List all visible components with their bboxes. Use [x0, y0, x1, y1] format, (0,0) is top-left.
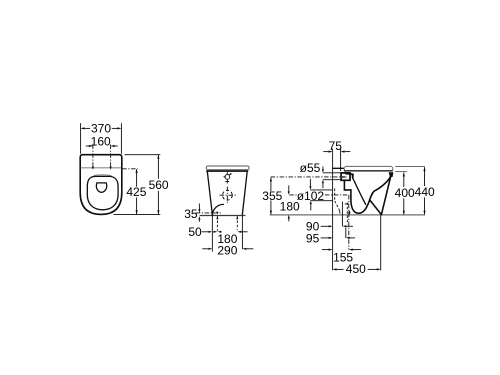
- ext line left: [211, 216, 213, 252]
- large crosshair circle dashed: [222, 190, 232, 200]
- svg-text:160: 160: [91, 134, 111, 148]
- hidden pipe dashed diagonal: [335, 201, 340, 211]
- dim 35 dashdot: [196, 212, 223, 214]
- seat slab: [344, 166, 393, 171]
- connector vertical 90-95: [345, 228, 347, 238]
- dim 400 up arrow: [403, 172, 405, 176]
- inner water spot: [96, 183, 106, 192]
- dim 400 line upper: [403, 173, 405, 187]
- bolt line right dashed: [236, 216, 238, 230]
- dim 425 ext dashdot: [122, 168, 138, 170]
- dim 560 down arrow: [157, 210, 159, 214]
- svg-text:50: 50: [188, 225, 202, 239]
- svg-text:425: 425: [126, 185, 146, 199]
- bolt line left arrowhead: [216, 216, 218, 219]
- large crosshair vertical: [226, 187, 228, 204]
- svg-text:450: 450: [346, 262, 366, 276]
- small crosshair NE head: [230, 173, 232, 175]
- dim 35 upper arrow: [198, 204, 200, 210]
- dim 560 line upper: [157, 155, 159, 179]
- o102 bottom line: [310, 200, 332, 202]
- bowl top grey arc: [94, 174, 112, 177]
- hole centerline left arrowhead: [92, 167, 94, 170]
- foot V right: [381, 176, 391, 215]
- body left side: [207, 171, 212, 215]
- dim 440 up arrow: [423, 167, 425, 171]
- seat lid edge: [206, 166, 249, 170]
- svg-text:400: 400: [395, 186, 415, 200]
- bolt line right arrowhead: [236, 216, 238, 219]
- dim 425 line lower: [136, 197, 138, 214]
- dim 160 right arrow: [111, 145, 115, 147]
- drain centerline dashdot horizontal: [289, 194, 349, 196]
- svg-text:290: 290: [217, 243, 237, 257]
- dim 400 down arrow: [403, 211, 405, 215]
- dim 50 double head at bolt line: [213, 231, 217, 233]
- bolt line left dashed: [216, 216, 218, 231]
- floor line rear: [200, 215, 246, 217]
- svg-text:180: 180: [280, 200, 300, 214]
- dim 440 line upper: [424, 167, 426, 186]
- hole centerline right: [110, 145, 112, 169]
- dim 290 left arrow: [202, 248, 208, 250]
- dim 425 up arrow: [136, 169, 138, 173]
- hinge elbow down: [352, 174, 354, 179]
- dim 355 line lower: [270, 201, 272, 215]
- svg-text:440: 440: [415, 185, 435, 199]
- dim 370 ext line left: [80, 123, 82, 154]
- dim text o102: [298, 191, 323, 200]
- rim tip black: [389, 172, 394, 177]
- svg-text:75: 75: [329, 139, 343, 153]
- hole centerline right arrowhead: [110, 167, 112, 170]
- wall line: [332, 149, 334, 271]
- dim 450 right arrow: [377, 268, 381, 270]
- small crosshair NE tick: [229, 174, 231, 176]
- large crosshair horizontal: [220, 194, 236, 196]
- dim 155 arrows: [322, 249, 329, 251]
- drain centerline dashdot vertical: [348, 195, 350, 250]
- bowl outline: [87, 176, 118, 209]
- dim 180 down arrow: [288, 185, 290, 191]
- dim 425 line upper: [136, 169, 138, 186]
- hole centerline left: [92, 145, 94, 169]
- o102 top line: [310, 189, 332, 191]
- ext line right: [241, 216, 243, 249]
- hidden dashed vertical near trap: [346, 203, 348, 225]
- small crosshair circle: [225, 175, 230, 180]
- svg-text:ø55: ø55: [300, 161, 321, 175]
- dim 560 ext bottom: [114, 213, 161, 215]
- o55 pipe top line: [323, 172, 341, 174]
- dim 440 down arrow: [423, 211, 425, 215]
- dim 370 right arrow: [117, 127, 121, 129]
- small up arrow at trap: [348, 211, 350, 215]
- o55 up arrow: [322, 180, 324, 184]
- dim 560 up arrow: [157, 155, 159, 159]
- foot V left: [370, 200, 382, 215]
- dim 355 down arrow: [270, 211, 272, 215]
- bolt hole solid vertical: [341, 202, 343, 227]
- bowl back-left profile: [344, 180, 369, 213]
- dim 75 right ext: [340, 149, 342, 171]
- lid back line: [333, 167, 345, 169]
- svg-text:35: 35: [184, 207, 198, 221]
- hidden pipe dashed vertical upper: [334, 189, 336, 201]
- o55 down arrow: [322, 167, 324, 170]
- seat hinge line (grey): [81, 167, 121, 169]
- seat slab bottom edge: [344, 170, 392, 172]
- dim 75 right arrow: [341, 151, 345, 153]
- right ext line top: [395, 166, 425, 168]
- dim 160 left arrow: [89, 145, 93, 147]
- svg-text:ø102: ø102: [297, 189, 325, 203]
- o55 pipe bottom line: [323, 179, 341, 181]
- dim 50 arrow: [202, 231, 209, 233]
- dim 355 line upper: [270, 177, 272, 191]
- dim 75 left arrow: [323, 151, 328, 153]
- dim 450 left arrow: [333, 268, 337, 270]
- dim 290 right arrow: [242, 248, 246, 250]
- hinge box inner grey dashes: [342, 176, 347, 178]
- dim 180 right arrow: [237, 231, 241, 233]
- small crosshair bottom cross: [226, 180, 228, 184]
- small crosshair top tick: [226, 172, 228, 174]
- dim 35 lower arrow: [198, 216, 200, 220]
- hinge connector box: [341, 173, 350, 180]
- bowl inner wall diagonal: [353, 179, 366, 205]
- drain outlet vertical: [380, 215, 382, 270]
- pipe centerline dashdot: [271, 176, 345, 178]
- drain quarter arc: [213, 204, 224, 215]
- hidden pipe dashed vertical lower: [339, 211, 341, 215]
- small crosshair left arrow: [223, 176, 226, 178]
- dim 180 up arrow: [288, 215, 290, 219]
- svg-text:95: 95: [306, 231, 320, 245]
- drain center small arrow: [216, 212, 218, 215]
- dim 440 line lower: [424, 197, 426, 214]
- dim 560 ext top: [125, 154, 161, 156]
- dim 425 down arrow: [136, 210, 138, 214]
- o102 down arrow: [309, 179, 311, 186]
- dim 370 left arrow: [81, 127, 85, 129]
- hinge wedge: [345, 172, 354, 175]
- o102 up arrow: [310, 201, 312, 205]
- dim 90 arrows: [321, 225, 329, 227]
- floor line side (grey): [270, 214, 425, 216]
- dim 560 line lower: [157, 191, 159, 214]
- body top edge: [207, 170, 248, 172]
- trap step short line: [345, 203, 349, 205]
- right ext line lower: [395, 171, 407, 173]
- wc plan outline: [80, 155, 122, 215]
- body right side: [242, 171, 247, 215]
- dim 370 ext line right: [120, 123, 122, 154]
- dim 355 up arrow: [270, 177, 272, 181]
- dim 95 arrows: [321, 237, 329, 239]
- bowl back S-curve: [370, 174, 392, 200]
- dim 400 line lower: [403, 198, 405, 214]
- svg-text:560: 560: [149, 178, 169, 192]
